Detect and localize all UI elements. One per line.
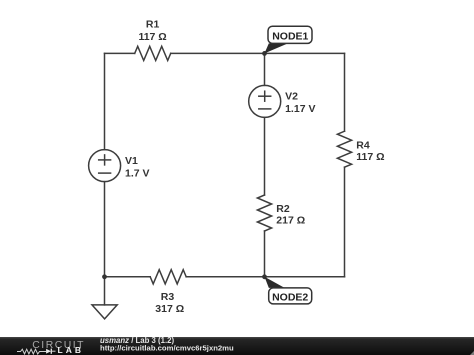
svg-text:217 Ω: 217 Ω <box>276 215 305 227</box>
wire middle upper (NODE1 to V2) <box>264 53 266 85</box>
svg-text:R3: R3 <box>161 291 175 303</box>
V2 plus sign <box>259 91 271 101</box>
svg-text:117 Ω: 117 Ω <box>356 151 384 163</box>
logo diode <box>46 349 55 354</box>
resistor R3 <box>150 270 186 284</box>
svg-text:R2: R2 <box>276 203 290 215</box>
svg-text:R1: R1 <box>146 18 160 30</box>
voltage source V1 <box>89 150 121 182</box>
V2 minus sign <box>259 108 271 110</box>
svg-text:317 Ω: 317 Ω <box>155 303 184 315</box>
node label NODE2 box <box>269 288 312 304</box>
wire right rail upper <box>344 53 346 131</box>
wire right rail lower <box>344 167 346 277</box>
wire top-right (R1 right to right rail) <box>171 52 345 54</box>
junction dot ground node <box>102 274 107 279</box>
node label NODE1 pointer <box>265 43 288 53</box>
wire top-left (V1 top to R1 left) <box>105 52 135 54</box>
svg-text:117 Ω: 117 Ω <box>138 31 166 43</box>
svg-text:http://circuitlab.com/cmvc6r5j: http://circuitlab.com/cmvc6r5jxn2mu <box>100 344 234 353</box>
svg-text:1.17 V: 1.17 V <box>285 103 315 115</box>
svg-text:R4: R4 <box>356 140 370 152</box>
wire left rail upper (corner to V1) <box>104 53 106 149</box>
svg-text:V1: V1 <box>125 155 138 167</box>
ground <box>92 277 117 319</box>
V1 plus sign <box>99 155 111 165</box>
node label NODE1 box <box>268 26 312 43</box>
footer corner grip <box>470 351 474 355</box>
resistor R4 <box>337 131 351 167</box>
wire middle lower (R2 to NODE2) <box>264 231 266 277</box>
wire bottom-right (R3 to right corner) <box>186 276 344 278</box>
resistor R2 <box>257 195 271 231</box>
wire middle (V2 to R2) <box>264 117 266 195</box>
node label NODE2 pointer <box>265 277 285 288</box>
svg-text:NODE2: NODE2 <box>272 292 308 304</box>
wire bottom-left (ground node to R3) <box>105 276 151 278</box>
svg-text:NODE1: NODE1 <box>272 31 308 43</box>
junction dot node NODE1 <box>262 51 267 56</box>
footer bar <box>0 337 474 355</box>
svg-text:LAB: LAB <box>58 345 84 355</box>
svg-text:V2: V2 <box>285 91 298 103</box>
logo resistor zigzag <box>17 349 46 354</box>
resistor R1 <box>135 46 171 60</box>
junction dot node NODE2 <box>262 274 267 279</box>
svg-text:1.7 V: 1.7 V <box>125 168 150 180</box>
V1 minus sign <box>99 172 111 174</box>
wire left rail lower (V1 to bottom corner) <box>104 182 106 277</box>
voltage source V2 <box>249 85 281 117</box>
